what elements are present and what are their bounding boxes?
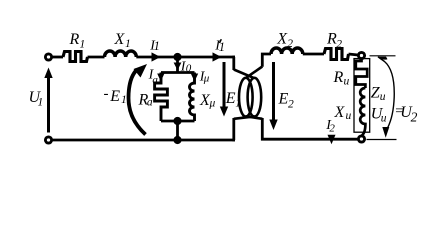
voltage arrow Uu=U2 (curved)	[378, 57, 394, 129]
current arrow I1	[152, 52, 161, 61]
inductor X1	[105, 51, 137, 57]
node bottom wire	[173, 136, 181, 144]
resistor Ra	[155, 73, 168, 122]
emf arrow E1	[223, 62, 226, 107]
svg-text:-: -	[104, 86, 109, 102]
emf arrow -E1 (curved)	[129, 70, 146, 135]
svg-text:1: 1	[38, 97, 44, 109]
inductor X2	[271, 48, 303, 54]
svg-text:u: u	[380, 91, 386, 103]
label Zu	[371, 85, 386, 104]
label E1	[225, 90, 241, 110]
current arrow I'1	[213, 52, 222, 61]
wire stem I0	[176, 57, 179, 73]
current arrow I2	[328, 135, 336, 144]
svg-text:a: a	[147, 97, 153, 109]
wire lead primary bottom	[234, 116, 255, 118]
terminal top-right output	[358, 52, 364, 58]
inductor Xmu	[190, 73, 195, 122]
wire left mesh right edge top	[234, 57, 235, 70]
label U1	[29, 89, 44, 109]
current arrow Imu	[191, 74, 198, 82]
svg-text:μ: μ	[203, 73, 210, 85]
svg-text:u: u	[346, 110, 352, 122]
dimension line bottom u2	[367, 139, 397, 141]
svg-text:E: E	[225, 90, 236, 107]
label I0	[180, 60, 192, 75]
label -E1	[104, 86, 127, 106]
wire lead primary top	[234, 70, 255, 79]
svg-text:2: 2	[329, 123, 335, 135]
svg-text:2: 2	[288, 99, 294, 111]
wire bottom right	[264, 138, 358, 141]
label I'1	[214, 39, 225, 55]
resistor Ru	[356, 58, 367, 88]
voltage arrow U1	[47, 76, 50, 133]
wire bottom left	[53, 139, 236, 142]
wire shunt bottom bar	[161, 120, 195, 123]
label Uu	[371, 106, 387, 125]
wire lead secondary top	[246, 67, 262, 79]
wire shunt top bar	[161, 71, 195, 74]
wire left mesh right edge bottom	[234, 118, 235, 140]
label Xmu	[199, 92, 216, 110]
svg-text:2: 2	[287, 38, 293, 50]
label I2	[325, 118, 335, 135]
label E2	[278, 91, 295, 111]
svg-text:R: R	[69, 31, 80, 48]
terminal top-left input	[45, 54, 51, 60]
wire R2 to terminal	[349, 54, 359, 55]
svg-text:1: 1	[80, 39, 86, 51]
label Ru	[333, 69, 350, 88]
svg-text:1: 1	[235, 98, 241, 110]
label Xu	[334, 104, 352, 122]
svg-text:2: 2	[411, 110, 418, 125]
label X2	[276, 31, 293, 51]
svg-text:1: 1	[154, 39, 160, 53]
svg-text:u: u	[381, 113, 387, 125]
terminal bottom-right output	[358, 136, 364, 142]
terminal bottom-left input	[45, 137, 51, 143]
wire X1 to coupling corner	[136, 56, 235, 59]
resistor R2	[324, 49, 349, 60]
label X1	[114, 31, 131, 50]
load box Zu	[354, 59, 370, 133]
wire stem to bottom	[176, 121, 179, 140]
svg-text:E: E	[278, 91, 289, 108]
resistor R1	[63, 52, 88, 62]
svg-text:E: E	[109, 88, 120, 105]
inductor Xu	[360, 88, 365, 136]
label Ia	[148, 68, 159, 87]
wire top-left to R1	[53, 56, 64, 59]
svg-text:X: X	[334, 104, 346, 121]
dimension line top u2	[370, 55, 396, 57]
wire right mesh left edge top	[262, 54, 271, 67]
svg-text:X: X	[114, 31, 126, 48]
node shunt bottom	[173, 117, 181, 125]
emf arrow E2	[272, 62, 275, 120]
svg-text:1: 1	[121, 94, 127, 106]
wire X2 to R2	[303, 53, 324, 56]
current arrow I0	[174, 63, 182, 71]
transformer coupling ellipse left	[239, 78, 253, 117]
wire right mesh left edge bottom	[262, 118, 264, 139]
current arrow Ia	[157, 74, 164, 82]
wire R1 to X1	[88, 56, 105, 59]
label Ra	[138, 92, 153, 109]
label Imu	[199, 70, 210, 85]
svg-text:2: 2	[336, 39, 342, 51]
label R2	[326, 31, 342, 51]
svg-text:u: u	[344, 76, 350, 88]
label =U2	[394, 104, 417, 125]
node junction top	[173, 53, 181, 61]
transformer coupling ellipse right	[248, 78, 262, 117]
label I1	[149, 39, 160, 54]
label R1	[69, 31, 86, 51]
svg-text:1: 1	[125, 38, 131, 50]
svg-text:μ: μ	[209, 98, 216, 110]
svg-text:R: R	[333, 69, 344, 86]
wire lead secondary bottom	[246, 116, 262, 118]
